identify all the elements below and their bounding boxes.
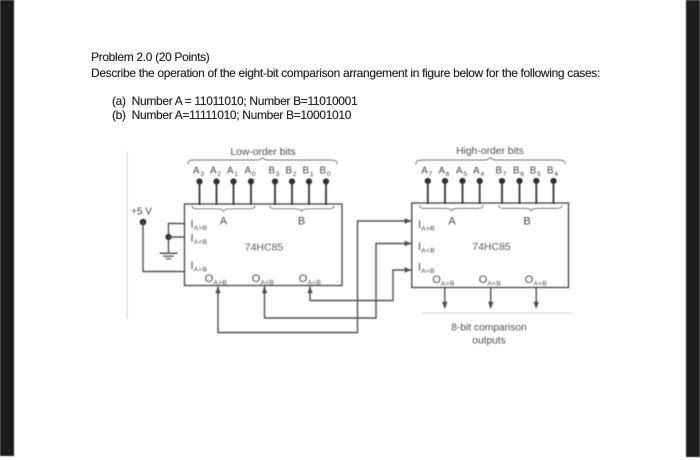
wire junction to I_A<B of U1 bbox=[169, 236, 185, 238]
node B7 input terminal bbox=[495, 166, 506, 204]
node A7 input terminal bbox=[421, 166, 432, 204]
pin label I_A>B of U1 bbox=[191, 219, 208, 233]
svg-text:A: A bbox=[220, 216, 228, 228]
svg-text:B3: B3 bbox=[268, 166, 279, 178]
node B3 input terminal bbox=[268, 166, 279, 205]
node B2 input terminal bbox=[285, 166, 296, 205]
svg-text:Low-order bits: Low-order bits bbox=[230, 147, 295, 158]
wire +5V to I_A=B of U1 bbox=[143, 222, 185, 272]
svg-text:B0: B0 bbox=[319, 166, 330, 178]
node A5 input terminal bbox=[456, 166, 467, 204]
wire O_A=B of U1 to I_A=B of U2 bbox=[310, 270, 411, 301]
pin label O_A<B of U2 bbox=[479, 274, 502, 288]
scan artifact faint horizontal line bbox=[423, 312, 572, 314]
svg-text:8-bit comparison: 8-bit comparison bbox=[451, 323, 526, 334]
pin label I_A=B of U1 bbox=[191, 260, 208, 274]
junction ground net bbox=[165, 234, 171, 240]
node A1 input terminal bbox=[227, 166, 238, 205]
node A2 input terminal bbox=[210, 166, 221, 205]
svg-text:B1: B1 bbox=[302, 166, 313, 178]
pin label O_A>B of U1 bbox=[205, 273, 228, 287]
node A6 input terminal bbox=[438, 166, 449, 204]
comparator U1 (low-order 74HC85) body bbox=[185, 204, 343, 286]
svg-text:IA<B: IA<B bbox=[418, 241, 435, 255]
scan artifact faint vertical line bbox=[126, 152, 128, 318]
pin label O_A<B of U1 bbox=[252, 273, 275, 287]
svg-text:A0: A0 bbox=[244, 166, 255, 178]
brace over high-order pin labels bbox=[416, 158, 565, 165]
svg-text:OA>B: OA>B bbox=[205, 273, 228, 287]
right black strip bbox=[686, 0, 700, 457]
svg-text:74HC85: 74HC85 bbox=[472, 241, 511, 253]
problem description text bbox=[91, 66, 600, 80]
label 8-bit comparison outputs bbox=[451, 323, 526, 347]
svg-text:IA=B: IA=B bbox=[191, 260, 208, 274]
label High-order bits bbox=[456, 146, 524, 157]
problem heading text bbox=[91, 50, 209, 64]
comparator U2 (high-order 74HC85) body bbox=[412, 203, 569, 288]
svg-text:A7: A7 bbox=[421, 166, 432, 178]
brace grouping A inputs of U2 bbox=[420, 206, 484, 228]
svg-text:B7: B7 bbox=[495, 166, 506, 178]
value label 74HC85 of U2 bbox=[472, 241, 511, 253]
+5 V supply terminal bbox=[131, 207, 152, 226]
node B1 input terminal bbox=[302, 166, 313, 205]
wire ground net to I_A>B of U1 bbox=[169, 224, 185, 253]
svg-text:B6: B6 bbox=[513, 166, 524, 178]
svg-text:A5: A5 bbox=[456, 166, 467, 178]
arrowhead into O_A=B of U1 bbox=[307, 286, 312, 293]
pin label I_A<B of U2 bbox=[418, 241, 435, 255]
arrowhead into O_A<B of U1 bbox=[262, 286, 267, 293]
pin label I_A>B of U2 bbox=[418, 219, 435, 233]
svg-text:A1: A1 bbox=[227, 166, 238, 178]
node A4 input terminal bbox=[473, 166, 484, 204]
svg-text:outputs: outputs bbox=[472, 336, 505, 347]
svg-text:OA<B: OA<B bbox=[252, 273, 275, 287]
svg-text:A: A bbox=[448, 216, 456, 228]
svg-text:B: B bbox=[523, 216, 530, 228]
arrowhead output O_A=B of U2 bbox=[534, 302, 539, 309]
arrowhead output O_A>B of U2 bbox=[442, 302, 447, 309]
svg-text:OA>B: OA>B bbox=[432, 274, 455, 288]
case (b) text bbox=[112, 108, 351, 122]
arrowhead into O_A>B of U1 bbox=[215, 286, 220, 293]
node B6 input terminal bbox=[513, 166, 524, 204]
svg-text:A3: A3 bbox=[193, 166, 204, 178]
svg-text:A2: A2 bbox=[210, 166, 221, 178]
node B4 input terminal bbox=[547, 166, 558, 204]
arrowhead into I_A=B of U2 bbox=[405, 267, 412, 272]
brace grouping B inputs of U2 bbox=[499, 206, 562, 228]
svg-text:IA>B: IA>B bbox=[418, 219, 435, 233]
wire output O_A>B of U2 bbox=[444, 288, 446, 303]
node A0 input terminal bbox=[244, 166, 255, 205]
svg-text:A6: A6 bbox=[438, 166, 449, 178]
brace grouping A inputs of U1 bbox=[192, 206, 255, 227]
svg-text:High-order bits: High-order bits bbox=[456, 146, 524, 157]
node A3 input terminal bbox=[193, 166, 204, 205]
arrowhead into I_A>B of U2 bbox=[405, 218, 412, 223]
svg-text:OA<B: OA<B bbox=[479, 274, 502, 288]
wire output O_A<B of U2 bbox=[490, 288, 492, 303]
svg-text:B4: B4 bbox=[547, 166, 558, 178]
svg-text:B2: B2 bbox=[285, 166, 296, 178]
pin label I_A<B of U1 bbox=[191, 233, 208, 247]
pin label O_A>B of U2 bbox=[432, 274, 455, 288]
wire output O_A=B of U2 bbox=[535, 288, 537, 303]
node B5 input terminal bbox=[530, 166, 541, 204]
svg-text:B: B bbox=[298, 216, 305, 228]
pin label O_A=B of U2 bbox=[525, 274, 548, 288]
pin label I_A=B of U2 bbox=[418, 262, 435, 276]
svg-text:B5: B5 bbox=[530, 166, 541, 178]
brace grouping B inputs of U1 bbox=[270, 206, 334, 227]
node B0 input terminal bbox=[319, 166, 330, 205]
left black strip bbox=[0, 0, 14, 456]
pin label O_A=B of U1 bbox=[299, 273, 322, 287]
svg-text:OA=B: OA=B bbox=[299, 273, 322, 287]
brace over low-order pin labels bbox=[188, 158, 337, 165]
svg-text:74HC85: 74HC85 bbox=[245, 242, 284, 254]
svg-text:A4: A4 bbox=[473, 166, 484, 178]
ground bbox=[161, 253, 177, 258]
svg-text:+5 V: +5 V bbox=[131, 207, 152, 218]
svg-text:IA<B: IA<B bbox=[191, 233, 208, 247]
svg-text:IA>B: IA>B bbox=[191, 219, 208, 233]
arrowhead output O_A<B of U2 bbox=[488, 302, 493, 309]
case (a) text bbox=[112, 94, 357, 108]
svg-text:OA=B: OA=B bbox=[525, 274, 548, 288]
wire O_A>B of U1 to I_A>B of U2 bbox=[218, 221, 411, 333]
label Low-order bits bbox=[230, 147, 295, 158]
wire O_A<B of U1 to I_A<B of U2 bbox=[265, 244, 411, 319]
value label 74HC85 of U1 bbox=[245, 242, 284, 254]
arrowhead into I_A<B of U2 bbox=[405, 241, 412, 246]
